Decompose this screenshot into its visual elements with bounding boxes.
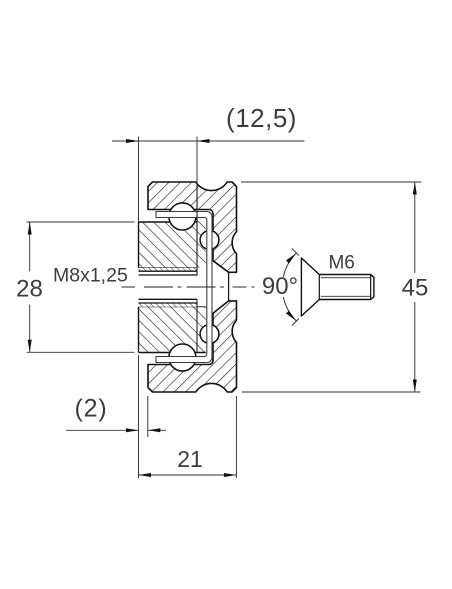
svg-text:21: 21	[177, 446, 203, 472]
nut right face edge + (12,5) extension line	[196, 137, 198, 183]
bearing ball right-upper	[200, 231, 219, 250]
bearing ball right-lower	[200, 325, 219, 344]
threaded bushing lower section	[139, 307, 206, 353]
dimension 45	[241, 182, 422, 392]
dimension (2)	[66, 396, 166, 437]
svg-text:90°: 90°	[262, 273, 298, 300]
dimension (12,5)	[112, 137, 305, 223]
roller shell lower section	[148, 301, 237, 392]
svg-text:(12,5): (12,5)	[226, 103, 297, 133]
dimension 21	[139, 355, 237, 478]
M8 thread band upper	[139, 268, 198, 271]
roller shell upper section	[148, 182, 237, 272]
svg-text:M6: M6	[328, 253, 354, 274]
angular dimension 90 deg	[283, 249, 299, 326]
svg-text:(2): (2)	[75, 395, 108, 423]
bearing ball bottom-left	[169, 344, 196, 371]
ball raceway channel	[156, 212, 212, 363]
dimension 28	[27, 222, 135, 352]
M8 thread band lower	[139, 303, 198, 307]
countersink cone-bore transition edge	[228, 272, 230, 301]
svg-text:M8x1,25: M8x1,25	[53, 265, 128, 287]
svg-text:45: 45	[402, 275, 429, 302]
bearing ball top-left	[169, 203, 196, 230]
svg-text:28: 28	[16, 276, 43, 303]
centerline axis	[122, 286, 255, 288]
threaded bushing upper section	[139, 218, 206, 268]
M6 countersunk screw	[301, 258, 374, 316]
